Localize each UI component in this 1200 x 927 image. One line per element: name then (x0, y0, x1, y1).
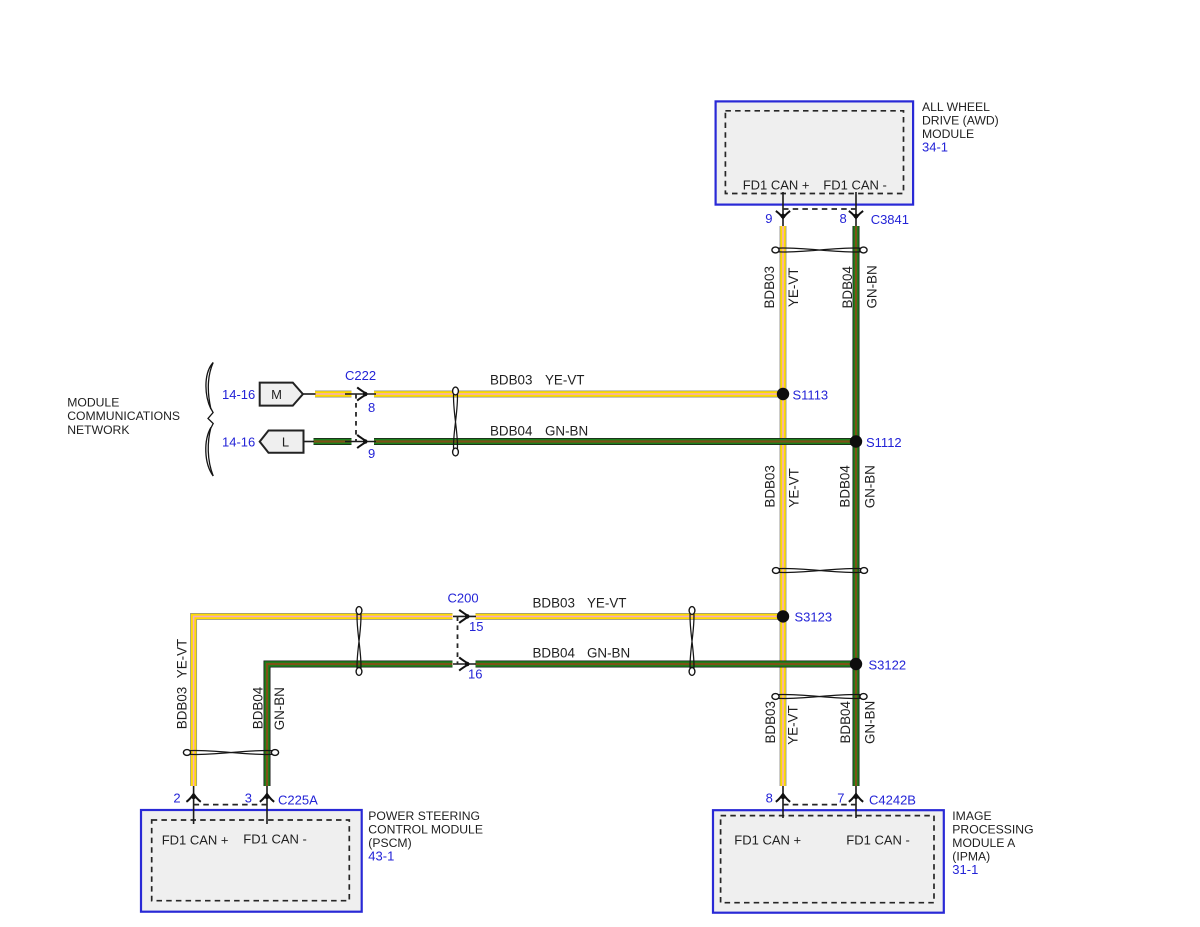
svg-text:C225A: C225A (278, 793, 318, 808)
svg-text:ALL WHEEL: ALL WHEEL (922, 100, 990, 114)
svg-text:FD1 CAN +: FD1 CAN + (743, 178, 810, 193)
svg-text:YE-VT: YE-VT (175, 639, 190, 678)
svg-text:YE-VT: YE-VT (786, 705, 801, 744)
svg-text:L: L (282, 435, 289, 450)
svg-text:14-16: 14-16 (222, 435, 255, 450)
svg-text:BDB03: BDB03 (763, 465, 778, 507)
svg-text:8: 8 (368, 400, 375, 415)
svg-text:M: M (271, 387, 282, 402)
svg-text:S1113: S1113 (793, 388, 829, 403)
svg-text:MODULE A: MODULE A (952, 836, 1016, 850)
svg-text:GN-BN: GN-BN (545, 424, 588, 439)
svg-text:9: 9 (368, 446, 375, 461)
svg-text:BDB04: BDB04 (838, 701, 853, 744)
svg-text:BDB04: BDB04 (840, 266, 855, 309)
svg-text:BDB04: BDB04 (251, 686, 266, 729)
svg-text:FD1 CAN +: FD1 CAN + (162, 833, 229, 848)
svg-text:BDB04: BDB04 (490, 424, 533, 439)
svg-text:BDB03: BDB03 (762, 266, 777, 308)
svg-text:8: 8 (766, 791, 773, 806)
svg-text:DRIVE (AWD): DRIVE (AWD) (922, 114, 999, 128)
svg-text:YE-VT: YE-VT (787, 468, 802, 507)
svg-text:GN-BN: GN-BN (272, 687, 287, 730)
svg-text:BDB03: BDB03 (533, 596, 575, 611)
svg-text:YE-VT: YE-VT (587, 596, 626, 611)
svg-text:14-16: 14-16 (222, 387, 255, 402)
svg-text:COMMUNICATIONS: COMMUNICATIONS (67, 409, 180, 423)
svg-text:IMAGE: IMAGE (952, 809, 991, 823)
svg-text:31-1: 31-1 (952, 862, 978, 877)
svg-text:16: 16 (468, 667, 482, 682)
svg-text:BDB03: BDB03 (763, 701, 778, 743)
svg-text:34-1: 34-1 (922, 140, 948, 155)
svg-text:PROCESSING: PROCESSING (952, 823, 1033, 837)
svg-text:S3122: S3122 (869, 658, 907, 673)
svg-text:C3841: C3841 (871, 212, 909, 227)
svg-text:15: 15 (469, 619, 483, 634)
svg-text:7: 7 (837, 791, 844, 806)
svg-text:FD1 CAN -: FD1 CAN - (846, 833, 910, 848)
svg-text:NETWORK: NETWORK (67, 423, 129, 437)
svg-text:FD1 CAN -: FD1 CAN - (243, 832, 307, 847)
svg-text:BDB04: BDB04 (533, 646, 576, 661)
svg-text:GN-BN: GN-BN (863, 701, 878, 744)
svg-text:9: 9 (765, 211, 772, 226)
svg-text:POWER STEERING: POWER STEERING (368, 809, 480, 823)
svg-text:CONTROL MODULE: CONTROL MODULE (368, 823, 483, 837)
svg-text:2: 2 (173, 791, 180, 806)
svg-text:C222: C222 (345, 368, 376, 383)
svg-text:S1112: S1112 (866, 435, 902, 450)
svg-text:BDB03: BDB03 (490, 373, 532, 388)
svg-text:MODULE: MODULE (67, 396, 119, 410)
svg-text:3: 3 (245, 791, 252, 806)
svg-text:8: 8 (839, 211, 846, 226)
svg-text:YE-VT: YE-VT (545, 373, 584, 388)
svg-text:C4242B: C4242B (869, 793, 916, 808)
svg-text:GN-BN: GN-BN (863, 465, 878, 508)
svg-text:C200: C200 (448, 591, 479, 606)
svg-text:FD1 CAN +: FD1 CAN + (734, 833, 801, 848)
svg-text:FD1 CAN -: FD1 CAN - (823, 178, 887, 193)
svg-text:GN-BN: GN-BN (587, 646, 630, 661)
svg-text:S3123: S3123 (795, 610, 833, 625)
svg-text:GN-BN: GN-BN (865, 265, 880, 308)
svg-text:43-1: 43-1 (368, 849, 394, 864)
svg-text:YE-VT: YE-VT (786, 268, 801, 307)
svg-text:BDB04: BDB04 (838, 465, 853, 508)
svg-text:BDB03: BDB03 (175, 687, 190, 729)
